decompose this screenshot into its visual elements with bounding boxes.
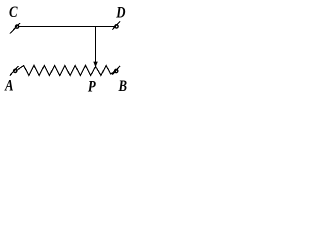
wire: top horizontal rod C-D xyxy=(19,26,115,28)
zigzag spring A-B xyxy=(17,66,115,76)
node C: hook circle at left end of top rod xyxy=(10,23,20,34)
svg-text:D: D xyxy=(115,4,126,22)
svg-text:P: P xyxy=(88,78,96,96)
node A: hook circle at left end of zigzag xyxy=(10,66,19,76)
arrowhead pointing down at P xyxy=(93,62,98,68)
label C xyxy=(9,4,18,22)
svg-text:C: C xyxy=(9,4,18,22)
label D xyxy=(115,4,126,22)
label B xyxy=(118,77,128,95)
label A xyxy=(4,77,14,95)
background xyxy=(0,0,140,101)
wire: vertical line from rod CD down to P xyxy=(95,27,97,62)
node B: hook circle at right end of zigzag xyxy=(113,66,121,75)
svg-text:B: B xyxy=(118,77,128,95)
node D: hook circle at right end of top rod xyxy=(112,21,120,29)
label P xyxy=(88,78,96,96)
svg-text:A: A xyxy=(4,77,14,95)
